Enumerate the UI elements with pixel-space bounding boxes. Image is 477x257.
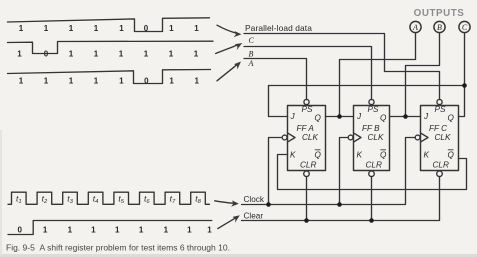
svg-text:J: J: [356, 112, 362, 121]
svg-text:A: A: [412, 23, 418, 32]
svg-text:C: C: [462, 23, 468, 32]
output terminal circle A: [410, 21, 421, 32]
svg-text:1: 1: [139, 225, 144, 234]
svg-text:t2: t2: [42, 194, 48, 206]
flip-flop U3 FF C clear bubble: [437, 171, 443, 177]
wire output A: Q_A junction up and over to circle A: [340, 33, 416, 117]
junction clear at CLR_A: [304, 218, 309, 223]
svg-text:1: 1: [115, 225, 120, 234]
svg-text:Q: Q: [315, 151, 322, 160]
svg-text:0: 0: [44, 49, 49, 58]
wire arrow clock waveform to Clock label: [215, 201, 234, 204]
svg-text:1: 1: [169, 49, 174, 58]
svg-text:1: 1: [187, 225, 192, 234]
wire clock line: [242, 138, 415, 205]
svg-text:1: 1: [19, 24, 24, 33]
waveform clear: [8, 221, 212, 235]
svg-text:1: 1: [44, 24, 49, 33]
flip-flop U1 FF A box: [288, 106, 326, 171]
svg-text:CLK: CLK: [435, 133, 451, 142]
svg-text:t4: t4: [93, 194, 99, 206]
svg-text:t7: t7: [170, 194, 176, 206]
svg-text:C: C: [249, 36, 255, 45]
output terminal circle B: [434, 21, 445, 32]
wire feedback rail Qbar_C to K_A: [278, 155, 467, 190]
svg-text:1: 1: [68, 225, 73, 234]
svg-text:t8: t8: [195, 194, 201, 206]
label FF C pins: [423, 105, 455, 170]
svg-text:J: J: [423, 112, 429, 121]
wire clear line: [242, 177, 440, 221]
svg-text:CLR: CLR: [433, 161, 449, 170]
junction Q_C feedback node: [462, 83, 467, 88]
label FF A pins: [290, 105, 322, 170]
svg-text:Clear: Clear: [244, 211, 264, 220]
flip-flop U3 FF C box: [421, 106, 459, 171]
svg-text:Q: Q: [315, 114, 322, 123]
junction clock at CLK_A: [266, 202, 271, 207]
svg-text:1: 1: [119, 49, 124, 58]
wire Q_B to J_C: [390, 116, 421, 118]
svg-text:K: K: [290, 151, 296, 160]
wire clear to CLR_B: [371, 177, 373, 221]
svg-text:1: 1: [194, 76, 199, 85]
svg-text:K: K: [424, 151, 430, 160]
wire arrow C waveform to data line: [217, 25, 237, 33]
svg-text:Q: Q: [448, 114, 455, 123]
label waveform clear bits: [17, 225, 212, 234]
scan smudge bottom edge: [0, 254, 477, 257]
svg-text:1: 1: [169, 76, 174, 85]
wire arrow clear waveform to Clear label: [218, 218, 236, 229]
svg-text:1: 1: [94, 24, 99, 33]
flip-flop U1 FF A preset bubble: [304, 99, 309, 104]
svg-text:0: 0: [144, 76, 149, 85]
flip-flop U1 FF A clock bubble: [282, 135, 287, 140]
svg-text:OUTPUTS: OUTPUTS: [414, 8, 465, 19]
junction clock at CLK_B: [337, 202, 342, 207]
svg-text:0: 0: [17, 225, 22, 234]
wire clear to CLR_A: [306, 177, 308, 221]
flip-flop U2 FF B clock triangle: [354, 133, 362, 142]
svg-text:0: 0: [144, 24, 149, 33]
label FF A Qbar overline: [315, 149, 321, 151]
svg-text:Q: Q: [380, 114, 387, 123]
wire output C: Q_C up to circle C: [459, 33, 465, 117]
flip-flop U2 FF B box: [354, 106, 390, 171]
svg-text:PS: PS: [302, 105, 313, 114]
svg-text:FF C: FF C: [429, 124, 447, 133]
wire clock to CLK_B: [340, 138, 348, 205]
label waveform B bits: [17, 49, 199, 58]
svg-text:FF B: FF B: [362, 124, 380, 133]
svg-text:1: 1: [17, 49, 22, 58]
svg-text:Parallel-load data: Parallel-load data: [245, 23, 312, 33]
flip-flop U3 FF C preset bubble: [437, 99, 442, 104]
svg-text:CLK: CLK: [302, 133, 318, 142]
svg-text:1: 1: [194, 49, 199, 58]
waveform C parallel-load data: [8, 18, 210, 32]
svg-text:1: 1: [207, 225, 212, 234]
svg-text:PS: PS: [368, 105, 379, 114]
svg-text:1: 1: [194, 24, 199, 33]
svg-text:1: 1: [94, 49, 99, 58]
svg-text:t6: t6: [144, 194, 150, 206]
svg-text:1: 1: [164, 225, 169, 234]
svg-text:Q: Q: [448, 151, 455, 160]
node B data line: [244, 47, 372, 100]
flip-flop U3 FF C clock bubble: [415, 135, 420, 140]
svg-text:Clock: Clock: [244, 195, 265, 204]
wire arrow A waveform to data line: [217, 65, 237, 81]
svg-text:1: 1: [119, 76, 124, 85]
waveform A parallel-load data: [8, 70, 211, 84]
label FF B pins: [356, 105, 387, 170]
waveform B parallel-load data: [8, 41, 214, 53]
svg-text:K: K: [357, 151, 363, 160]
svg-text:Q: Q: [380, 151, 387, 160]
svg-text:A: A: [248, 59, 254, 68]
flip-flop U1 FF A clear bubble: [304, 171, 310, 177]
svg-text:1: 1: [69, 24, 74, 33]
label clock pulse times t1-t8: [16, 194, 202, 206]
svg-text:1: 1: [94, 76, 99, 85]
svg-text:CLR: CLR: [366, 161, 382, 170]
svg-text:1: 1: [43, 225, 48, 234]
svg-text:FF A: FF A: [297, 124, 315, 133]
svg-text:t1: t1: [16, 194, 22, 206]
junction Q_B node: [403, 114, 408, 119]
output terminal circle C: [459, 21, 470, 32]
svg-text:t3: t3: [67, 194, 73, 206]
flip-flop U3 FF C clock triangle: [421, 133, 429, 142]
flip-flop U2 FF B preset bubble: [369, 99, 374, 104]
flip-flop U2 FF B clock bubble: [348, 135, 353, 140]
svg-text:1: 1: [44, 76, 49, 85]
svg-text:1: 1: [91, 225, 96, 234]
svg-text:1: 1: [69, 76, 74, 85]
scan smudge left edge: [0, 130, 2, 255]
svg-text:B: B: [249, 49, 254, 58]
flip-flop U1 FF A clock triangle: [288, 133, 296, 142]
junction clear at CLR_B: [369, 218, 374, 223]
node C data line: [244, 34, 440, 100]
svg-text:J: J: [290, 112, 296, 121]
node A data line: [244, 59, 307, 100]
svg-text:1: 1: [19, 76, 24, 85]
svg-text:1: 1: [69, 49, 74, 58]
svg-text:1: 1: [169, 24, 174, 33]
waveform clock pulses t1-t8: [8, 192, 210, 204]
svg-text:1: 1: [119, 24, 124, 33]
label waveform A bits: [19, 76, 200, 85]
svg-text:B: B: [437, 23, 442, 32]
wire Q_A to J_B: [326, 116, 354, 118]
label FF B Qbar overline: [380, 149, 386, 151]
label FF C Qbar overline: [448, 149, 454, 151]
wire arrow B waveform to data line: [216, 45, 237, 53]
svg-text:CLK: CLK: [368, 133, 384, 142]
flip-flop U2 FF B clear bubble: [369, 171, 375, 177]
svg-text:1: 1: [144, 49, 149, 58]
svg-text:PS: PS: [435, 105, 446, 114]
svg-text:CLR: CLR: [300, 161, 316, 170]
svg-text:t5: t5: [118, 194, 124, 206]
svg-text:Fig. 9-5 A shift register pro: Fig. 9-5 A shift register problem for te…: [6, 242, 230, 252]
label waveform C bits: [19, 24, 200, 33]
wire output B: Q_B junction up and over to circle B: [406, 33, 440, 117]
junction Q_A node: [337, 114, 342, 119]
wire clock to CLK_A: [269, 138, 282, 205]
wire feedback rail Q_C to J_A: [269, 86, 465, 117]
